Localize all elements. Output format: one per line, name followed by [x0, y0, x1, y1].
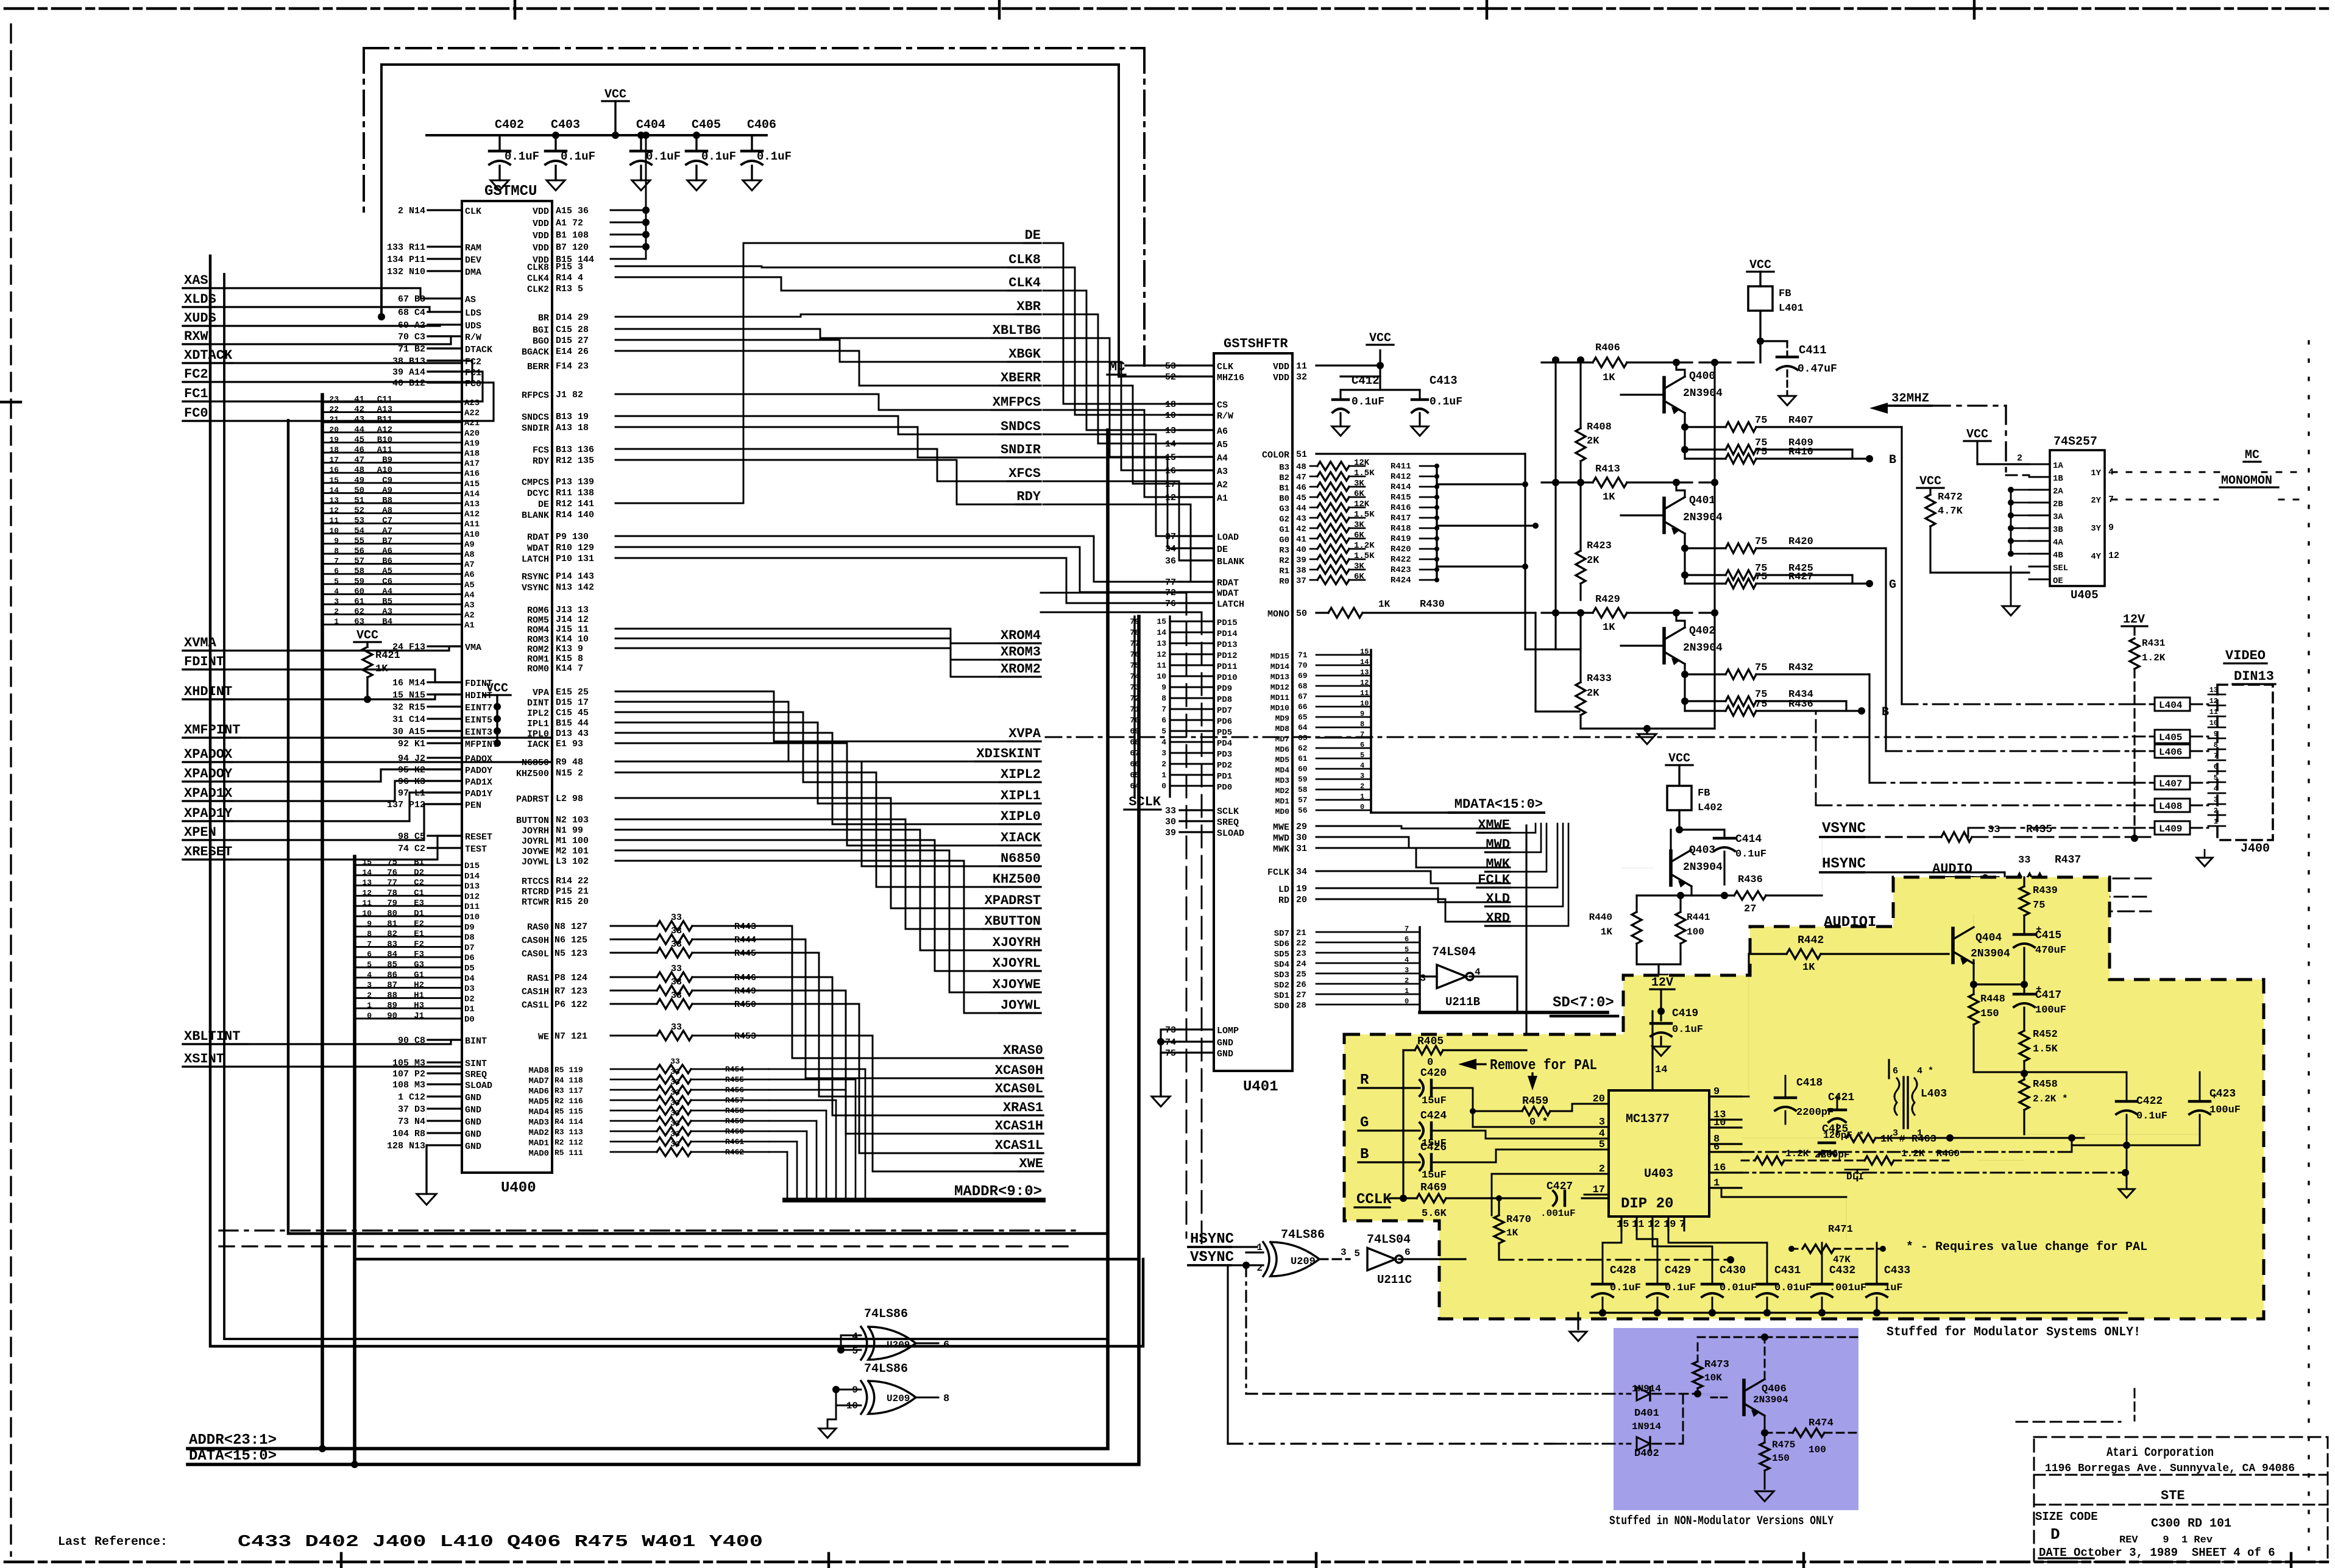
xor gate U209B — [837, 1307, 949, 1360]
resistor R459 — [1473, 1095, 1609, 1128]
capacitors C420 C424 C426 — [1420, 1067, 1447, 1181]
svg-text:R461: R461 — [725, 1137, 744, 1146]
svg-text:R469: R469 — [1420, 1182, 1447, 1194]
svg-text:22: 22 — [1296, 939, 1306, 948]
svg-text:D1: D1 — [414, 909, 424, 919]
svg-text:47: 47 — [1296, 473, 1306, 482]
svg-text:SIZE CODE: SIZE CODE — [2035, 1510, 2098, 1524]
wire U401 VDD to VCC — [1316, 331, 1394, 376]
svg-text:RSYNC: RSYNC — [522, 572, 549, 582]
svg-text:R12 141: R12 141 — [556, 499, 594, 509]
svg-text:MD13: MD13 — [1270, 673, 1289, 682]
svg-text:4Y: 4Y — [2091, 552, 2101, 562]
svg-text:13: 13 — [2209, 686, 2218, 694]
wires caps to pins — [1603, 1231, 1877, 1252]
svg-text:R458: R458 — [2033, 1079, 2058, 1090]
svg-text:D: D — [2050, 1525, 2060, 1544]
svg-text:D402: D402 — [1634, 1448, 1659, 1460]
svg-text:19: 19 — [1664, 1219, 1676, 1231]
svg-text:P10 131: P10 131 — [556, 554, 594, 564]
svg-text:B13 136: B13 136 — [556, 445, 594, 455]
svg-text:P8 124: P8 124 — [555, 973, 587, 983]
svg-text:D12: D12 — [464, 892, 480, 902]
svg-text:OE: OE — [2053, 576, 2063, 586]
svg-text:47: 47 — [354, 456, 364, 465]
svg-text:4B: 4B — [2053, 551, 2063, 560]
svg-text:A6: A6 — [1217, 426, 1228, 437]
svg-text:39: 39 — [1165, 828, 1176, 838]
svg-text:C2: C2 — [414, 878, 424, 888]
wires yellow right — [1974, 1070, 2200, 1198]
wires dash bundle to DIN13 — [1046, 704, 2133, 837]
svg-text:GSTMCU: GSTMCU — [484, 183, 537, 200]
svg-text:P15 21: P15 21 — [556, 886, 589, 897]
svg-text:K14 10: K14 10 — [556, 634, 589, 645]
svg-text:H1: H1 — [414, 991, 424, 1000]
svg-text:2: 2 — [1360, 782, 1364, 791]
svg-text:E14 26: E14 26 — [556, 347, 589, 357]
inductors L404-L409 — [2133, 697, 2208, 835]
svg-text:BUTTON: BUTTON — [516, 816, 549, 826]
U400 data pins D15-D0 — [355, 858, 480, 1025]
svg-text:MD1: MD1 — [1275, 797, 1290, 806]
ground U405 — [2002, 475, 2029, 615]
svg-text:A1 72: A1 72 — [556, 218, 583, 228]
connector J400 DIN13 — [2197, 648, 2275, 866]
svg-text:R11 138: R11 138 — [556, 488, 594, 498]
svg-text:11: 11 — [1157, 661, 1166, 670]
wires XAS..FC0 to U400 — [183, 288, 494, 421]
svg-text:D0: D0 — [464, 1015, 475, 1025]
svg-text:SLOAD: SLOAD — [465, 1081, 492, 1091]
svg-text:MAD5: MAD5 — [528, 1097, 549, 1107]
svg-text:XCAS1L: XCAS1L — [995, 1138, 1043, 1153]
svg-text:R458: R458 — [725, 1106, 744, 1115]
svg-text:14: 14 — [1165, 439, 1176, 450]
resistor R421 pullup — [354, 629, 400, 703]
svg-text:2K: 2K — [1587, 688, 1600, 699]
svg-text:83: 83 — [387, 939, 397, 949]
svg-text:61: 61 — [354, 597, 364, 607]
svg-text:2K: 2K — [1587, 555, 1600, 567]
svg-text:4 *: 4 * — [1917, 1066, 1933, 1076]
svg-text:A10: A10 — [464, 530, 480, 540]
svg-text:N13 142: N13 142 — [556, 582, 594, 593]
svg-text:33: 33 — [671, 977, 682, 987]
IC U400 GSTMCU box — [462, 183, 552, 1196]
svg-text:R431: R431 — [2142, 638, 2165, 649]
wires RDAT WDAT LATCH — [615, 536, 1180, 603]
svg-text:XIPL1: XIPL1 — [1001, 788, 1041, 803]
capacitor C402 — [489, 118, 539, 191]
svg-text:G1: G1 — [1279, 525, 1289, 535]
capacitor C403 — [545, 118, 595, 191]
svg-text:EINT3: EINT3 — [465, 727, 492, 738]
svg-text:5: 5 — [1405, 945, 1409, 954]
svg-text:L401: L401 — [1779, 303, 1804, 314]
svg-text:R13 5: R13 5 — [556, 284, 583, 294]
svg-text:8: 8 — [334, 546, 339, 556]
svg-text:10: 10 — [1360, 699, 1369, 708]
svg-text:12V: 12V — [2123, 613, 2145, 627]
svg-text:A17: A17 — [464, 459, 480, 469]
svg-text:132 N10: 132 N10 — [387, 267, 425, 277]
svg-text:C418: C418 — [1796, 1077, 1823, 1089]
svg-text:1.5K: 1.5K — [1354, 510, 1375, 520]
svg-text:52: 52 — [354, 506, 364, 516]
svg-text:40: 40 — [1296, 545, 1306, 555]
svg-text:2Y: 2Y — [2091, 496, 2101, 506]
svg-text:B5: B5 — [382, 597, 392, 607]
svg-text:1K: 1K — [1378, 599, 1391, 610]
svg-text:33: 33 — [671, 1022, 682, 1033]
svg-text:16: 16 — [329, 465, 339, 475]
svg-text:Stuffed for Modulator Systems: Stuffed for Modulator Systems ONLY! — [1887, 1326, 2141, 1340]
svg-text:27: 27 — [1744, 903, 1756, 915]
svg-text:R9 48: R9 48 — [556, 757, 583, 768]
svg-text:N7 121: N7 121 — [555, 1031, 587, 1042]
svg-text:C300 RD 101: C300 RD 101 — [2151, 1517, 2231, 1531]
svg-text:A3: A3 — [1217, 467, 1228, 477]
svg-text:50: 50 — [354, 486, 364, 495]
net labels R G B — [1358, 1072, 1420, 1163]
svg-text:DE: DE — [538, 500, 549, 510]
svg-text:R5 115: R5 115 — [555, 1107, 583, 1116]
svg-text:15uF: 15uF — [1422, 1095, 1447, 1107]
svg-text:XCAS0H: XCAS0H — [995, 1063, 1043, 1078]
svg-text:R415: R415 — [1391, 493, 1411, 503]
svg-text:1: 1 — [334, 617, 339, 626]
resistors R454-R462 MAD pins — [528, 1057, 865, 1200]
svg-text:SREQ: SREQ — [1217, 818, 1239, 828]
svg-text:23: 23 — [329, 395, 339, 404]
svg-text:11: 11 — [329, 516, 339, 525]
net label CCLK — [1355, 1192, 1392, 1208]
svg-text:76: 76 — [1165, 599, 1176, 609]
wire top dash-dot bus — [364, 48, 1144, 366]
svg-text:C430: C430 — [1720, 1265, 1746, 1277]
svg-text:33: 33 — [671, 926, 682, 936]
svg-text:H3: H3 — [414, 1001, 424, 1011]
svg-text:0.1uF: 0.1uF — [1672, 1024, 1703, 1036]
svg-text:VCC: VCC — [604, 88, 626, 102]
svg-text:GND: GND — [1217, 1049, 1233, 1059]
svg-text:38 B13: 38 B13 — [392, 356, 425, 367]
svg-text:51: 51 — [354, 496, 364, 506]
svg-text:R460: R460 — [725, 1127, 744, 1136]
svg-text:A12: A12 — [464, 510, 480, 520]
svg-text:77: 77 — [1165, 577, 1176, 588]
svg-text:R422: R422 — [1391, 555, 1411, 565]
svg-text:74S257: 74S257 — [2053, 435, 2097, 449]
svg-text:XCAS0L: XCAS0L — [995, 1081, 1043, 1097]
svg-text:41: 41 — [354, 395, 364, 404]
svg-text:75: 75 — [1755, 536, 1767, 548]
svg-text:C419: C419 — [1672, 1008, 1698, 1020]
svg-text:74LS04: 74LS04 — [1367, 1233, 1411, 1247]
svg-text:0.47uF: 0.47uF — [1798, 363, 1837, 375]
svg-text:36: 36 — [1165, 556, 1176, 567]
svg-text:R470: R470 — [1506, 1214, 1531, 1226]
xor gate U209C — [832, 1362, 949, 1414]
svg-text:B10: B10 — [377, 435, 392, 445]
svg-text:MAD1: MAD1 — [528, 1139, 549, 1148]
capacitor C427 — [1540, 1181, 1609, 1219]
svg-text:15: 15 — [1617, 1219, 1629, 1231]
svg-text:XVMA: XVMA — [184, 635, 217, 651]
svg-text:A4: A4 — [382, 587, 392, 596]
svg-text:C415: C415 — [2035, 930, 2061, 942]
svg-text:13: 13 — [329, 496, 339, 505]
svg-text:7: 7 — [367, 939, 372, 948]
svg-text:STE: STE — [2161, 1488, 2185, 1503]
U401 GND stub — [1152, 1029, 1180, 1107]
svg-text:28: 28 — [1296, 1001, 1306, 1011]
svg-text:R424: R424 — [1391, 576, 1411, 585]
svg-text:A20: A20 — [464, 429, 480, 439]
svg-text:1K: 1K — [1603, 372, 1615, 384]
svg-text:B1 108: B1 108 — [556, 230, 589, 241]
svg-text:6: 6 — [1161, 716, 1166, 725]
resistor R439 — [2019, 877, 2058, 933]
svg-text:XRD: XRD — [1486, 911, 1510, 926]
svg-text:U401: U401 — [1243, 1079, 1278, 1095]
svg-text:1.5K: 1.5K — [2033, 1044, 2058, 1055]
svg-text:XWE: XWE — [1019, 1156, 1043, 1171]
svg-text:UDS: UDS — [465, 321, 481, 331]
svg-text:MD4: MD4 — [1275, 766, 1290, 775]
svg-text:2: 2 — [2214, 807, 2218, 815]
svg-text:6: 6 — [1893, 1066, 1898, 1076]
svg-text:58: 58 — [354, 567, 364, 576]
svg-text:MAD3: MAD3 — [528, 1118, 549, 1128]
svg-text:A15 36: A15 36 — [556, 206, 589, 216]
svg-text:2B: 2B — [2053, 500, 2063, 509]
svg-text:FCLK: FCLK — [1478, 872, 1511, 888]
svg-text:CLK: CLK — [465, 207, 481, 217]
svg-text:RESET: RESET — [465, 832, 492, 842]
svg-text:38: 38 — [1296, 566, 1306, 576]
svg-text:VCC: VCC — [1966, 428, 1988, 442]
capacitor C421 — [1823, 1092, 1864, 1141]
svg-text:DINT: DINT — [527, 698, 549, 708]
svg-text:1: 1 — [2214, 818, 2218, 826]
svg-text:8: 8 — [1360, 720, 1364, 729]
svg-text:R445: R445 — [734, 948, 756, 959]
svg-text:MAD2: MAD2 — [528, 1128, 549, 1138]
svg-text:0.1uF: 0.1uF — [2136, 1111, 2167, 1122]
svg-text:CCLK: CCLK — [1356, 1192, 1392, 1208]
inverter U211C — [1354, 1233, 1465, 1287]
svg-text:R3 113: R3 113 — [555, 1128, 583, 1137]
wire vertical through SD — [1525, 825, 1527, 1050]
power VCC top — [602, 88, 629, 139]
svg-text:WDAT: WDAT — [527, 543, 549, 554]
svg-text:1: 1 — [367, 1001, 372, 1010]
svg-text:0.1uF: 0.1uF — [1352, 396, 1384, 408]
svg-text:45: 45 — [1296, 493, 1306, 503]
svg-text:MWD: MWD — [1273, 833, 1289, 844]
svg-text:XFCS: XFCS — [1008, 466, 1041, 481]
svg-text:LD: LD — [1278, 885, 1289, 895]
svg-text:DMA: DMA — [465, 267, 481, 278]
svg-text:N6850: N6850 — [1001, 851, 1041, 866]
svg-text:AS: AS — [465, 295, 476, 305]
svg-text:BR: BR — [538, 313, 549, 323]
svg-text:68: 68 — [1298, 682, 1308, 691]
transistor Q404 — [1949, 914, 2010, 965]
svg-text:C11: C11 — [377, 395, 392, 404]
svg-text:5: 5 — [2214, 774, 2218, 782]
svg-text:18: 18 — [1165, 400, 1176, 410]
svg-text:C428: C428 — [1610, 1265, 1636, 1277]
wire pin16 row — [1709, 1169, 2129, 1182]
svg-text:SD0: SD0 — [1274, 1001, 1289, 1011]
svg-text:B6: B6 — [382, 557, 392, 567]
svg-text:R440: R440 — [1589, 912, 1612, 923]
svg-text:D9: D9 — [464, 923, 475, 933]
svg-text:20: 20 — [1296, 895, 1307, 905]
svg-text:MD9: MD9 — [1275, 714, 1290, 723]
svg-text:VMA: VMA — [465, 643, 481, 653]
svg-text:90: 90 — [387, 1011, 397, 1021]
svg-text:66: 66 — [1298, 702, 1308, 712]
svg-text:C15 28: C15 28 — [556, 325, 589, 335]
svg-text:G: G — [1889, 578, 1896, 592]
U400 left control pins — [387, 206, 498, 1152]
wire block outline B — [224, 274, 1106, 1339]
svg-text:FCS: FCS — [533, 445, 549, 456]
svg-text:0: 0 — [1161, 782, 1166, 791]
svg-text:R416: R416 — [1391, 503, 1411, 513]
svg-text:JOYRH: JOYRH — [522, 826, 549, 836]
svg-text:LATCH: LATCH — [522, 554, 549, 565]
svg-text:K15 8: K15 8 — [556, 654, 583, 664]
svg-text:XBGK: XBGK — [1008, 347, 1041, 362]
svg-text:11: 11 — [2209, 708, 2218, 716]
svg-text:G1: G1 — [414, 970, 424, 980]
svg-text:6K: 6K — [1354, 531, 1364, 540]
svg-text:ROM1: ROM1 — [527, 654, 549, 665]
U401 PD pins — [1130, 617, 1237, 793]
svg-text:RAM: RAM — [465, 243, 481, 253]
svg-text:133 R11: 133 R11 — [387, 242, 425, 253]
svg-text:7: 7 — [1161, 705, 1166, 714]
svg-text:B2: B2 — [1279, 473, 1289, 483]
wire VCC rail top — [427, 134, 767, 136]
svg-text:17: 17 — [1165, 479, 1176, 490]
svg-text:ADDR<23:1>: ADDR<23:1> — [189, 1432, 277, 1449]
wire Q404 emitter — [1970, 960, 2024, 988]
svg-text:A13 18: A13 18 — [556, 423, 589, 433]
svg-text:A2: A2 — [464, 611, 475, 621]
resistor R463 — [1742, 1134, 1954, 1145]
capacitor C422 — [2116, 1072, 2167, 1149]
svg-text:32MHZ: 32MHZ — [1891, 392, 1929, 406]
svg-text:1.2K R46: 1.2K R46 — [1785, 1148, 1838, 1159]
svg-text:PD2: PD2 — [1217, 761, 1232, 771]
transistor Q406 — [1698, 1333, 1858, 1417]
svg-text:DIN13: DIN13 — [2234, 669, 2274, 684]
svg-text:RDY: RDY — [1016, 489, 1041, 504]
svg-text:A6: A6 — [464, 570, 475, 580]
wire MC out — [2112, 448, 2300, 500]
svg-text:ROM4: ROM4 — [527, 625, 549, 635]
wire base drive vertical — [1552, 356, 1559, 649]
svg-text:6: 6 — [1405, 935, 1409, 944]
svg-text:D3: D3 — [464, 984, 475, 994]
svg-text:R472: R472 — [1938, 492, 1963, 503]
svg-text:SCLK: SCLK — [1129, 794, 1161, 810]
svg-text:0.1uF: 0.1uF — [646, 150, 681, 163]
capacitor C425 — [1815, 1123, 1850, 1160]
svg-text:VSYNC: VSYNC — [1190, 1249, 1234, 1266]
svg-text:1K: 1K — [1506, 1227, 1518, 1238]
svg-text:B7 120: B7 120 — [556, 242, 589, 253]
svg-text:RAS0: RAS0 — [527, 922, 549, 933]
svg-text:34: 34 — [1165, 544, 1176, 554]
title block — [2034, 1437, 2328, 1562]
svg-text:MD2: MD2 — [1275, 786, 1290, 796]
svg-text:N6 125: N6 125 — [555, 935, 587, 945]
svg-text:R14 140: R14 140 — [556, 510, 594, 520]
svg-text:8: 8 — [1161, 694, 1166, 703]
svg-text:20: 20 — [329, 425, 339, 434]
svg-text:CLK2: CLK2 — [527, 284, 549, 295]
svg-text:B9: B9 — [382, 456, 392, 465]
svg-text:VDD: VDD — [533, 243, 549, 253]
svg-text:D15: D15 — [464, 861, 480, 871]
IC U401 GSTSHFTR box — [1214, 336, 1292, 1095]
transformer L403 — [1889, 1060, 1947, 1139]
svg-text:34: 34 — [1296, 867, 1307, 877]
diode D401 — [1554, 1383, 1698, 1419]
svg-text:SD3: SD3 — [1274, 970, 1289, 980]
svg-text:PADOY: PADOY — [465, 766, 492, 776]
svg-text:87: 87 — [387, 981, 397, 991]
svg-text:10K: 10K — [1704, 1372, 1722, 1383]
svg-text:C422: C422 — [2136, 1095, 2163, 1107]
svg-text:TEST: TEST — [465, 844, 487, 855]
ground R440 R441 — [1637, 964, 1681, 984]
svg-text:8: 8 — [943, 1393, 949, 1405]
svg-text:3: 3 — [1341, 1247, 1347, 1258]
svg-text:XPADRST: XPADRST — [985, 893, 1041, 908]
svg-text:C406: C406 — [747, 118, 776, 132]
svg-text:D2: D2 — [414, 868, 424, 878]
wire title top — [2016, 1389, 2135, 1422]
svg-text:9: 9 — [334, 536, 339, 545]
resistor row R432 — [1685, 662, 1869, 783]
svg-text:3: 3 — [1360, 772, 1364, 780]
svg-text:IPL1: IPL1 — [527, 719, 549, 729]
svg-text:A11: A11 — [464, 520, 480, 529]
svg-text:JOYWL: JOYWL — [1001, 998, 1041, 1013]
svg-text:74LS86: 74LS86 — [864, 1362, 908, 1376]
svg-text:15: 15 — [329, 476, 339, 485]
svg-text:0: 0 — [367, 1011, 372, 1020]
svg-text:57: 57 — [1298, 796, 1308, 805]
resistors R443-R453 33ohm — [522, 913, 756, 1042]
svg-text:L403: L403 — [1921, 1088, 1947, 1100]
svg-text:VCC: VCC — [1369, 331, 1391, 345]
svg-text:0.1uF: 0.1uF — [1735, 849, 1766, 860]
svg-text:SINT: SINT — [465, 1059, 487, 1069]
svg-text:41: 41 — [1296, 535, 1306, 545]
svg-text:12: 12 — [362, 888, 372, 897]
capacitor C418 — [1775, 1076, 1834, 1124]
svg-text:1.2K: 1.2K — [1354, 541, 1375, 551]
